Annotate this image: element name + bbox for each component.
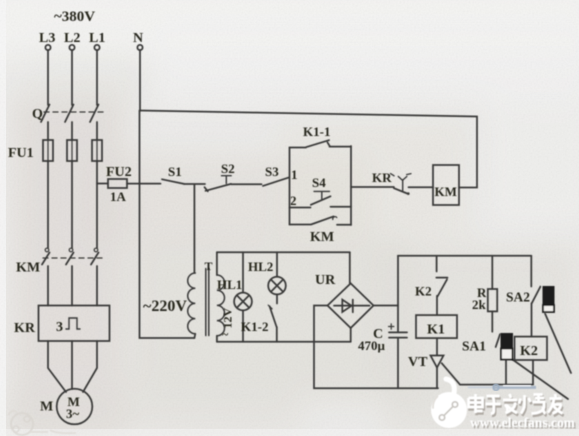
svg-text:~220V: ~220V xyxy=(143,298,187,315)
svg-text:M: M xyxy=(40,400,53,415)
svg-text:L2: L2 xyxy=(64,31,80,46)
svg-text:HL1: HL1 xyxy=(217,277,242,292)
svg-text:FU2: FU2 xyxy=(106,165,132,180)
svg-text:www.elecfans.com: www.elecfans.com xyxy=(470,415,575,430)
svg-text:Q: Q xyxy=(32,107,43,122)
svg-text:~380V: ~380V xyxy=(54,9,95,25)
svg-text:N: N xyxy=(133,31,143,46)
svg-text:3~: 3~ xyxy=(66,406,80,421)
svg-text:~: ~ xyxy=(222,327,229,341)
svg-text:L1: L1 xyxy=(89,31,105,46)
svg-text:470μ: 470μ xyxy=(358,338,386,353)
svg-text:FU1: FU1 xyxy=(8,146,34,161)
svg-text:1: 1 xyxy=(291,167,298,182)
svg-text:1A: 1A xyxy=(110,189,127,204)
svg-text:S3: S3 xyxy=(265,164,279,179)
svg-text:K1: K1 xyxy=(427,323,445,338)
svg-text:SA1: SA1 xyxy=(462,339,486,354)
svg-text:SA2: SA2 xyxy=(506,290,530,305)
svg-text:S4: S4 xyxy=(312,175,326,190)
svg-text:K1-1: K1-1 xyxy=(303,124,330,139)
svg-text:K2: K2 xyxy=(520,344,538,359)
svg-text:KR: KR xyxy=(372,170,392,185)
svg-text:HL2: HL2 xyxy=(248,259,273,274)
svg-text:2: 2 xyxy=(290,193,297,208)
svg-text:KM: KM xyxy=(16,261,40,276)
svg-text:KM: KM xyxy=(310,230,334,245)
svg-text:KM: KM xyxy=(435,184,457,199)
svg-text:3: 3 xyxy=(56,320,63,335)
svg-text:VT: VT xyxy=(408,355,428,370)
svg-text:UR: UR xyxy=(315,273,336,288)
svg-text:K2: K2 xyxy=(415,284,432,299)
svg-text:12V: 12V xyxy=(221,308,235,329)
svg-text:T: T xyxy=(205,259,213,273)
svg-text:K1-2: K1-2 xyxy=(241,319,268,334)
svg-text:S2: S2 xyxy=(221,161,235,176)
svg-text:L3: L3 xyxy=(39,31,55,46)
svg-text:KR: KR xyxy=(14,321,36,336)
svg-text:S1: S1 xyxy=(168,164,182,179)
svg-text:2k: 2k xyxy=(472,297,487,312)
